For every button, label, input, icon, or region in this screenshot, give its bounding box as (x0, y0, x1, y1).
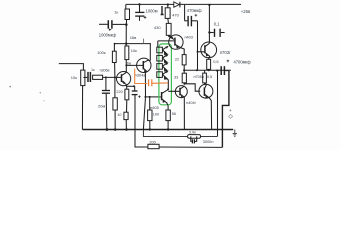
wire line B lower (135, 130, 148, 148)
node p404 base node (167, 88, 169, 90)
svg-text:470: 470 (172, 12, 179, 17)
wire T2 collector riser (149, 44, 151, 61)
resistor R 200 (148, 144, 159, 148)
resistor R 3,9k feedback (188, 135, 201, 139)
transistor chain element 2 (157, 54, 169, 63)
svg-text:56: 56 (172, 112, 176, 116)
resistor R 470 (rail chain) (165, 5, 170, 24)
svg-text:470мкф: 470мкф (187, 8, 202, 13)
transistor p703g upper output (201, 42, 217, 58)
node T2 base tap (125, 64, 127, 66)
node feedback bus (216, 70, 218, 72)
svg-text:1000м: 1000м (146, 8, 158, 13)
wire p703g base (198, 51, 205, 53)
transistor chain element 1 (157, 46, 169, 55)
node mid bus junction (183, 69, 185, 71)
svg-text:430: 430 (154, 25, 161, 30)
svg-text:0,5: 0,5 (207, 74, 212, 79)
wire output bus y70 (184, 69, 231, 71)
transistor T2 p304a second stage (137, 58, 151, 73)
resistor R 430 (166, 23, 173, 38)
node bus dot 2 (114, 128, 117, 131)
node top rail junction C (208, 4, 210, 6)
node bus dot 3 (125, 128, 128, 131)
svg-text:3000п: 3000п (203, 139, 214, 144)
svg-text:0,1: 0,1 (214, 21, 220, 26)
svg-text:0,5: 0,5 (213, 59, 218, 64)
svg-text:4700мкф: 4700мкф (234, 60, 252, 65)
svg-text:10к: 10к (71, 75, 77, 80)
terminal mark plus (229, 109, 232, 112)
speck 2 (40, 92, 41, 93)
node p404 collector tap (184, 83, 186, 85)
svg-text:33: 33 (174, 75, 178, 79)
wire p403 base drop (157, 41, 159, 47)
transistor p404g output driver (168, 86, 187, 130)
svg-text:100к: 100к (97, 50, 106, 55)
node bus dot 4 (149, 128, 151, 130)
svg-text:200: 200 (149, 141, 155, 145)
capacitor C base decoupling (102, 77, 110, 129)
capacitor C emitter bypass (132, 86, 141, 129)
wire p403 base (158, 40, 175, 42)
speck 3 (43, 100, 44, 101)
wire top supply rail (126, 3, 241, 5)
node emitter bus (208, 69, 210, 71)
svg-text:п304а: п304а (135, 74, 146, 78)
node p605 base node (144, 96, 146, 98)
svg-text:п404г: п404г (186, 101, 196, 105)
svg-text:10к: 10к (131, 48, 137, 53)
svg-text:1000мкф: 1000мкф (99, 32, 117, 37)
wire output drop thick (222, 71, 229, 148)
speck 1 (9, 86, 11, 88)
transistor T1 p306 input stage (117, 72, 131, 86)
ground symbol (233, 130, 237, 137)
node bias junction (125, 42, 128, 45)
diode VD1 on rail (174, 2, 180, 8)
transistor chain element 3 (157, 62, 169, 71)
annotation orange added capacitor (135, 69, 168, 86)
capacitor C 4700mkf output (221, 60, 229, 75)
wire base T1 (103, 76, 121, 78)
wire base p605 (145, 96, 161, 98)
resistor R 56 (166, 106, 170, 130)
transistor p403 driver (169, 35, 185, 55)
transistor p705v lower output (199, 83, 213, 129)
capacitor C 1000m electrolytic to rail (135, 4, 146, 20)
capacitor C 1000mkf coupling (99, 20, 126, 31)
terminal mark diamond (229, 114, 233, 118)
resistor R 220 emitter (125, 89, 129, 112)
wire bias rail y43.5 (114, 43, 150, 45)
capacitor C input coupling to base (83, 72, 90, 82)
wire T1 collector up (125, 60, 127, 73)
capacitor C 0,1 (209, 29, 224, 37)
svg-text:п306в: п306в (100, 69, 110, 73)
node bias left corner (114, 43, 116, 45)
resistor R 0,5 upper (207, 58, 211, 70)
resistor R 10 (124, 112, 128, 129)
svg-text:+25в: +25в (241, 9, 251, 14)
node bootstrap bus (196, 69, 198, 71)
wire stub near 1000m (161, 6, 164, 15)
svg-text:10: 10 (117, 113, 121, 117)
node bootstrap/base junction (197, 51, 199, 53)
svg-text:п605: п605 (150, 106, 158, 110)
svg-text:1к: 1к (114, 9, 118, 14)
wire collector drop x209 (208, 5, 210, 42)
node bus dot 5 (167, 128, 169, 130)
resistor R 33 (182, 73, 186, 83)
resistor R 100k bias (112, 44, 116, 78)
resistor R 1k base series (93, 75, 103, 79)
wire chain bottom drop (167, 78, 168, 89)
svg-text:16в: 16в (130, 35, 137, 40)
wire bootstrap vertical to output node (197, 21, 199, 71)
wire junction down (125, 25, 127, 44)
svg-text:3,9к: 3,9к (189, 131, 196, 135)
node R100 tap (149, 96, 151, 98)
resistor R 22 (182, 55, 186, 65)
svg-text:100: 100 (153, 113, 159, 117)
resistor R 1k (rail to input node) (125, 4, 130, 23)
svg-text:220: 220 (116, 90, 122, 94)
wire T2 emitter down (143, 72, 145, 129)
resistor R 10k collector load (125, 44, 129, 60)
node coupling junction (125, 23, 128, 26)
wire ground bus bottom (82, 129, 233, 131)
resistor R 20m (113, 77, 117, 129)
transistor chain element 4 (157, 71, 169, 80)
node 0,1 tap (208, 31, 210, 33)
wire emitter branch right (127, 85, 135, 87)
node emitter cap junction (133, 85, 135, 87)
wire p705v base (184, 84, 200, 91)
svg-text:22: 22 (175, 57, 179, 61)
wire 22 to 33 (183, 65, 185, 73)
resistor R 100 (148, 97, 152, 129)
svg-text:п705в: п705в (194, 75, 204, 79)
annotation green box (159, 44, 172, 105)
resistor R 10k input (81, 70, 85, 129)
wire T2 base (126, 64, 142, 66)
transistor p605 in green box (162, 90, 169, 106)
node top rail junction B (167, 3, 169, 5)
wire line B right (159, 146, 222, 148)
wire feedback drop (217, 71, 219, 137)
wire feedback line A (143, 130, 217, 137)
node base junction 2 (114, 76, 116, 78)
svg-text:п403: п403 (185, 36, 193, 40)
node bus dot 1 (106, 128, 109, 131)
capacitor C 470mkf bootstrap (185, 5, 198, 27)
capacitor C 3000p parallel (191, 136, 197, 143)
svg-text:20м: 20м (98, 104, 105, 109)
wire T1 emitter to R220 (126, 85, 128, 90)
resistor R 0,5 lower (203, 70, 207, 84)
svg-text:п703г: п703г (220, 50, 231, 55)
wire input terminal (59, 64, 84, 71)
node top rail junction A (138, 3, 140, 5)
svg-text:1к: 1к (91, 68, 95, 72)
wire 33 to p404 (183, 83, 185, 85)
node base junction 1 (105, 76, 107, 78)
wire stub 16v (143, 39, 145, 44)
